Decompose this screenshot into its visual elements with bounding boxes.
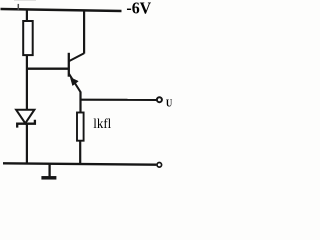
ground bar [41,176,56,180]
wire: R1 top lead [26,10,28,21]
svg-text:-6V: -6V [126,0,151,18]
wire: emitter down to node [79,92,81,113]
transistor Q1 collector diagonal [69,53,84,61]
wire: R2 bottom to bottom rail [79,141,81,165]
artifact smudge at top edge [14,0,36,1]
wire: stub above rail (cropped wire) [17,4,19,10]
wire: diode to bottom rail [26,124,28,164]
wire: collector to top rail [83,10,85,53]
resistor R2 [77,113,84,141]
svg-text:U: U [166,98,173,110]
transistor Q1 base bar [68,53,70,77]
wire: top supply rail [1,9,122,11]
terminal: bottom circle [157,163,162,168]
wire: R1 bottom to diode [26,55,28,110]
ground stub [48,164,50,177]
terminal: output circle U [157,97,162,102]
wire: output node to terminal [81,99,157,101]
diode D1 zener cathode bar [17,120,35,128]
transistor Q1 emitter arrow (PNP, points toward base) [70,78,78,86]
wire: base lead [27,68,69,70]
transistor Q1 emitter diagonal [69,74,81,93]
resistor R1 [23,21,33,55]
wire: bottom rail [3,163,156,164]
svg-text:lkfl: lkfl [93,117,111,132]
diode D1 (zener) triangle [16,110,34,124]
